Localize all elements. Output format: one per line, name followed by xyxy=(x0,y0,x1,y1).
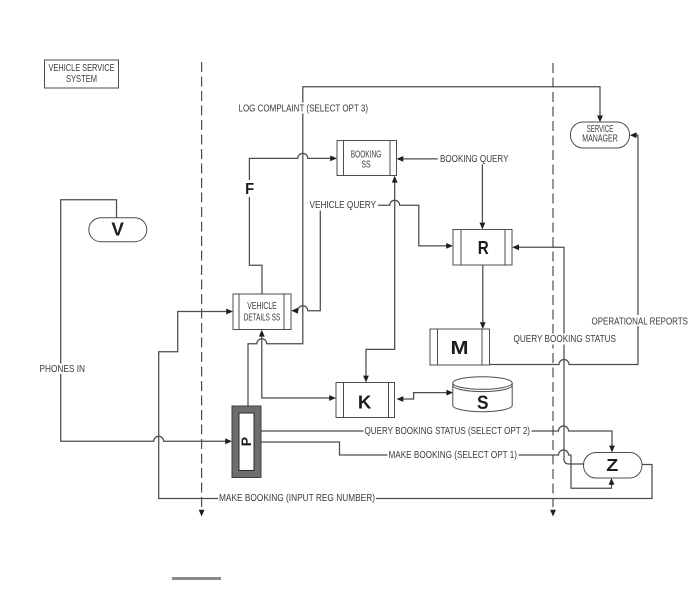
svg-text:OPERATIONAL REPORTS: OPERATIONAL REPORTS xyxy=(592,317,689,328)
wire PHONES IN: V top to P left xyxy=(61,200,228,442)
svg-text:P: P xyxy=(238,437,254,446)
label PHONES IN xyxy=(39,364,87,375)
wire MAKE BOOKING (INPUT REG NUMBER): Z right to VEHICLE DETAILS SS left xyxy=(159,312,652,499)
wire BOOKING QUERY left stub into BOOKING SS right xyxy=(402,158,438,160)
label VEHICLE QUERY xyxy=(308,200,378,211)
svg-text:BOOKING QUERY: BOOKING QUERY xyxy=(440,154,509,165)
svg-text:SYSTEM: SYSTEM xyxy=(66,74,97,85)
svg-text:MAKE BOOKING (SELECT OPT 1): MAKE BOOKING (SELECT OPT 1) xyxy=(389,450,518,461)
svg-text:F: F xyxy=(245,181,254,198)
label MAKE BOOKING (INPUT REG NUMBER) xyxy=(218,493,376,504)
svg-text:MAKE BOOKING (INPUT REG NUMBER: MAKE BOOKING (INPUT REG NUMBER) xyxy=(219,493,375,504)
datastore S cylinder xyxy=(453,377,512,414)
wire LOG COMPLAINT: P top to SERVICE MANAGER top xyxy=(248,87,600,406)
svg-text:QUERY BOOKING STATUS: QUERY BOOKING STATUS xyxy=(514,334,617,345)
arrowhead up into VEHICLE DETAILS SS bottom xyxy=(259,330,265,337)
system boundary label box VEHICLE SERVICE SYSTEM xyxy=(45,60,119,88)
wire QUERY BOOKING STATUS (SELECT OPT 2): P right to Z top xyxy=(261,426,612,448)
left dashed boundary arrowhead xyxy=(199,510,205,517)
arrowhead into SERVICE MANAGER top xyxy=(597,116,603,123)
arrowhead up into BOOKING SS bottom xyxy=(392,176,398,183)
svg-text:MANAGER: MANAGER xyxy=(582,133,618,144)
label QUERY BOOKING STATUS (SELECT OPT 2) xyxy=(364,426,532,437)
arrowhead into M top xyxy=(480,322,486,329)
arrowhead into R left xyxy=(446,243,453,249)
svg-text:PHONES IN: PHONES IN xyxy=(40,364,86,375)
arrowhead into K left xyxy=(329,395,336,401)
wire R bottom to M top xyxy=(482,265,484,325)
svg-text:LOG COMPLAINT (SELECT OPT 3): LOG COMPLAINT (SELECT OPT 3) xyxy=(239,104,369,115)
arrowhead into S left xyxy=(446,390,453,396)
process P (emphasized) xyxy=(232,406,261,478)
arrowhead into VEHICLE DETAILS SS right xyxy=(291,308,298,314)
arrowhead into P left xyxy=(225,438,232,444)
arrowhead into VEHICLE DETAILS SS left xyxy=(226,309,233,315)
process VEHICLE DETAILS SS xyxy=(233,294,291,330)
wire VEHICLE DETAILS SS bottom to K left xyxy=(262,335,332,399)
arrowhead into R right xyxy=(512,244,519,250)
right dashed boundary line xyxy=(552,63,554,507)
svg-text:DETAILS SS: DETAILS SS xyxy=(244,312,281,323)
wire VEHICLE QUERY down-left stub into VEHICLE DETAILS SS right xyxy=(296,211,321,311)
wire F: VEHICLE DETAILS SS top to BOOKING SS left xyxy=(249,153,332,294)
label LOG COMPLAINT (SELECT OPT 3) xyxy=(238,103,369,114)
process R xyxy=(453,230,512,266)
svg-text:R: R xyxy=(478,237,489,258)
svg-text:VEHICLE SERVICE: VEHICLE SERVICE xyxy=(49,63,115,74)
wire MAKE BOOKING (SELECT OPT 1): P right to Z bottom xyxy=(261,442,612,488)
right dashed boundary arrowhead xyxy=(550,510,556,517)
svg-text:VEHICLE QUERY: VEHICLE QUERY xyxy=(310,200,377,211)
arrowhead into Z top xyxy=(609,446,615,453)
arrowhead down into K top xyxy=(363,376,369,383)
arrowhead into K right xyxy=(397,396,404,402)
svg-text:S: S xyxy=(477,392,489,414)
label OPERATIONAL REPORTS xyxy=(590,315,689,326)
wire VEHICLE QUERY right stub into R left xyxy=(377,200,449,246)
arrowhead into SERVICE MANAGER right xyxy=(630,132,637,138)
wire QUERY BOOKING STATUS: Z left to R right xyxy=(517,247,584,464)
external entity V xyxy=(89,218,147,242)
process M xyxy=(430,329,490,365)
bottom gray bar xyxy=(172,577,221,580)
left dashed boundary line xyxy=(201,62,203,507)
terminator SERVICE MANAGER xyxy=(571,122,630,148)
svg-text:M: M xyxy=(451,337,469,358)
svg-text:SS: SS xyxy=(362,160,371,171)
svg-text:VEHICLE: VEHICLE xyxy=(247,301,277,312)
node label F xyxy=(244,180,256,197)
arrowhead up into Z bottom xyxy=(609,478,615,485)
svg-text:Z: Z xyxy=(606,455,618,475)
wire OPERATIONAL REPORTS: M right to SERVICE MANAGER right xyxy=(490,135,639,364)
arrowhead into BOOKING SS right xyxy=(397,156,404,162)
terminator Z xyxy=(584,453,643,479)
process BOOKING SS xyxy=(337,141,397,176)
arrowhead into R top xyxy=(480,223,486,230)
label QUERY BOOKING STATUS xyxy=(513,334,618,345)
wire BOOKING QUERY down stub into R top xyxy=(481,165,483,225)
svg-text:V: V xyxy=(111,219,124,240)
wire S to K right xyxy=(402,393,449,399)
process K xyxy=(336,383,395,418)
arrowhead into BOOKING SS left xyxy=(330,156,337,162)
svg-text:K: K xyxy=(358,392,372,413)
label MAKE BOOKING (SELECT OPT 1) xyxy=(388,450,519,461)
svg-text:QUERY BOOKING STATUS (SELECT O: QUERY BOOKING STATUS (SELECT OPT 2) xyxy=(365,426,531,437)
wire BOOKING SS bottom to K top xyxy=(366,181,395,378)
